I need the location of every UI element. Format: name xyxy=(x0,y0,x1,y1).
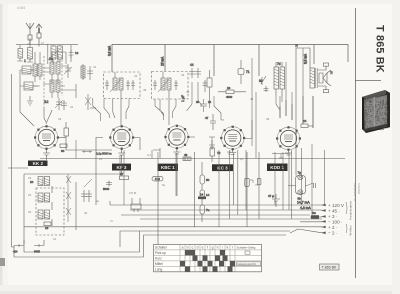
svg-text:e: e xyxy=(202,246,204,250)
svg-text:− 2 ·: − 2 · xyxy=(328,231,337,236)
svg-text:b: b xyxy=(187,246,189,250)
svg-text:Mittel: Mittel xyxy=(155,262,163,266)
svg-text:42: 42 xyxy=(134,74,138,78)
svg-text:4000: 4000 xyxy=(226,95,233,99)
svg-text:15 mA: 15 mA xyxy=(161,56,165,66)
svg-text:0,5 M: 0,5 M xyxy=(129,191,137,195)
svg-text:4,8 mA: 4,8 mA xyxy=(300,206,311,210)
svg-text:7d: 7d xyxy=(277,62,281,66)
svg-text:50: 50 xyxy=(206,178,210,182)
svg-text:22: 22 xyxy=(28,210,32,214)
svg-text:67: 67 xyxy=(120,172,124,176)
svg-text:7g: 7g xyxy=(298,171,302,175)
svg-text:5000: 5000 xyxy=(103,187,110,191)
svg-text:+ 45 ·: + 45 · xyxy=(328,208,340,213)
svg-text:7i: 7i xyxy=(330,71,333,75)
svg-text:0,8 mA: 0,8 mA xyxy=(108,45,112,56)
svg-text:48: 48 xyxy=(250,97,254,101)
svg-text:24: 24 xyxy=(227,86,231,90)
svg-text:24: 24 xyxy=(28,176,32,180)
svg-text:8,5 mA: 8,5 mA xyxy=(304,53,308,64)
svg-text:14: 14 xyxy=(206,193,210,197)
svg-text:47: 47 xyxy=(221,118,225,122)
svg-text:Werkphoto Tfk: Werkphoto Tfk xyxy=(353,183,357,202)
svg-text:0,1µ 5000 m: 0,1µ 5000 m xyxy=(96,152,112,156)
svg-text:T 865 BK: T 865 BK xyxy=(374,25,386,73)
svg-text:4 044: 4 044 xyxy=(17,6,25,10)
svg-text:43: 43 xyxy=(181,73,185,77)
svg-text:5µ: 5µ xyxy=(162,183,166,187)
svg-text:48: 48 xyxy=(184,153,188,157)
svg-text:1 µF: 1 µF xyxy=(181,95,185,102)
svg-text:60: 60 xyxy=(61,149,65,153)
svg-text:0,1: 0,1 xyxy=(147,153,151,157)
svg-text:T 865 BK: T 865 BK xyxy=(322,266,338,270)
svg-text:32: 32 xyxy=(44,99,49,104)
svg-text:13: 13 xyxy=(75,51,79,55)
svg-text:30: 30 xyxy=(84,211,88,215)
svg-text:4V-Akku: 4V-Akku xyxy=(349,225,353,236)
svg-text:33: 33 xyxy=(58,117,62,121)
svg-text:+ 120 V: + 120 V xyxy=(328,203,345,208)
svg-text:44: 44 xyxy=(303,119,307,123)
svg-text:71: 71 xyxy=(246,70,250,74)
svg-text:2µ: 2µ xyxy=(96,199,100,203)
svg-text:Schalter-Stellg: Schalter-Stellg xyxy=(237,245,256,249)
svg-text:d: d xyxy=(197,246,199,250)
svg-text:1: 1 xyxy=(24,59,26,63)
svg-text:49: 49 xyxy=(266,117,270,121)
svg-text:31: 31 xyxy=(70,105,74,109)
svg-text:Kurz: Kurz xyxy=(155,257,162,261)
svg-text:2a: 2a xyxy=(49,57,53,61)
svg-text:30: 30 xyxy=(196,100,200,104)
svg-text:24: 24 xyxy=(30,180,34,184)
svg-text:21: 21 xyxy=(53,237,57,241)
svg-text:KDD 1: KDD 1 xyxy=(270,165,284,170)
svg-text:41: 41 xyxy=(93,65,97,69)
svg-text:Anodenbatterie: Anodenbatterie xyxy=(349,201,353,220)
svg-text:Pick-up: Pick-up xyxy=(155,251,166,255)
svg-text:− 100 ·: − 100 · xyxy=(328,219,342,224)
svg-text:g: g xyxy=(212,246,214,250)
svg-text:47: 47 xyxy=(205,116,209,120)
svg-text:53: 53 xyxy=(294,131,298,135)
svg-text:46: 46 xyxy=(186,90,190,94)
svg-text:KK 2: KK 2 xyxy=(33,161,44,166)
svg-text:KBC 1: KBC 1 xyxy=(161,165,175,170)
svg-text:45: 45 xyxy=(143,88,147,92)
svg-text:6005: 6005 xyxy=(34,250,40,254)
svg-text:Schalter: Schalter xyxy=(155,246,168,250)
svg-text:belegungsrichtl.: belegungsrichtl. xyxy=(238,262,257,266)
svg-text:7b: 7b xyxy=(255,183,259,187)
svg-text:20: 20 xyxy=(208,100,212,104)
svg-text:h: h xyxy=(217,246,219,250)
svg-text:47 µ: 47 µ xyxy=(268,194,274,198)
svg-text:90: 90 xyxy=(259,79,263,83)
svg-text:1µ: 1µ xyxy=(240,157,244,161)
svg-text:14,7 mA: 14,7 mA xyxy=(297,201,310,205)
svg-text:14: 14 xyxy=(200,193,204,197)
svg-text:27: 27 xyxy=(41,41,45,45)
svg-text:Schaltbild: Schaltbild xyxy=(357,183,360,194)
svg-text:25: 25 xyxy=(99,157,103,161)
svg-text:+ 2 ·: + 2 · xyxy=(328,225,337,230)
svg-text:23: 23 xyxy=(28,193,32,197)
svg-text:Lang: Lang xyxy=(155,268,163,272)
svg-text:26: 26 xyxy=(27,42,31,46)
svg-text:a: a xyxy=(182,246,184,250)
svg-text:5 M: 5 M xyxy=(155,177,160,181)
svg-text:44: 44 xyxy=(190,63,194,67)
svg-text:7f: 7f xyxy=(295,44,298,48)
svg-text:f: f xyxy=(207,246,208,250)
